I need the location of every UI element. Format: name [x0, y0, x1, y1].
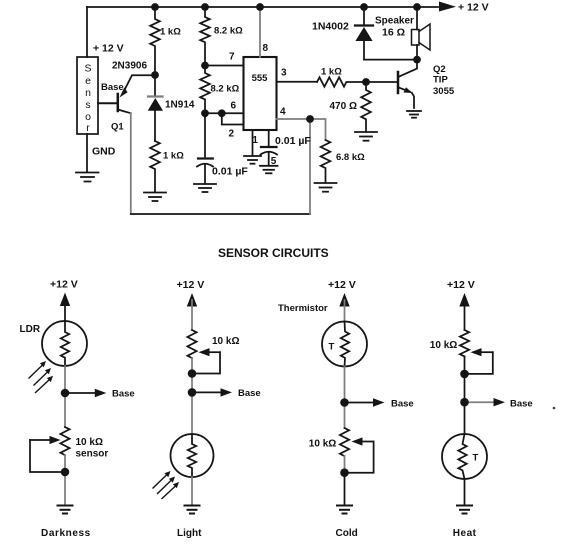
node pin6 junction [201, 109, 209, 117]
wire to ground (cold) [344, 473, 346, 505]
wire Q2 base [366, 81, 397, 83]
svg-text:+ 12 V: + 12 V [458, 2, 489, 14]
svg-text:T: T [473, 453, 479, 464]
node output/470 [362, 78, 370, 86]
node rail/8.2k [201, 3, 209, 11]
svg-text:8: 8 [263, 43, 269, 54]
svg-text:0.01 µF: 0.01 µF [275, 135, 311, 147]
node rail/1k [151, 3, 159, 11]
resistor R 1 kOhm (output) [317, 77, 366, 86]
sensor block [77, 57, 98, 134]
wire Q1 collector down (gray loop left) [130, 113, 132, 214]
svg-text:+12 V: +12 V [177, 279, 205, 291]
wire pin 3 output [277, 81, 318, 83]
wire +12V top rail [87, 6, 438, 8]
svg-text:Cold: Cold [336, 528, 358, 539]
wire base of Q1 [98, 102, 117, 104]
ground (cap branch) [194, 184, 216, 192]
svg-text:0.01 µF: 0.01 µF [212, 166, 248, 178]
svg-text:6: 6 [231, 101, 237, 112]
wire to speaker [416, 7, 418, 30]
wire node to pot (cold) [344, 403, 346, 429]
svg-text:1N914: 1N914 [165, 100, 195, 111]
svg-text:Darkness: Darkness [41, 528, 91, 539]
IC U1 555 [244, 57, 277, 130]
svg-text:7: 7 [229, 52, 235, 63]
svg-text:Base: Base [238, 388, 261, 399]
wire pin 2 [222, 113, 244, 124]
thermistor (heat) [442, 434, 487, 479]
svg-text:T: T [329, 342, 335, 353]
node base (cold) [340, 398, 349, 407]
ground (1k/1N914 branch) [144, 193, 166, 202]
svg-text:1 kΩ: 1 kΩ [163, 151, 184, 162]
ground (pin 5) [260, 166, 278, 174]
svg-text:1: 1 [252, 135, 258, 146]
diode 1N4002 [355, 7, 373, 60]
wire pot to node (light) [191, 358, 193, 373]
svg-text:470 Ω: 470 Ω [330, 101, 357, 112]
svg-text:S: S [84, 63, 91, 75]
ground (470) [355, 132, 377, 141]
node pin7 junction [201, 62, 209, 70]
svg-text:sensor: sensor [76, 449, 109, 460]
resistor R 1 kOhm (upper) [150, 7, 160, 75]
supply arrow (heat) [459, 293, 469, 330]
node rail/pin8 [256, 3, 264, 11]
svg-text:+12 V: +12 V [328, 279, 356, 291]
svg-text:555: 555 [252, 73, 269, 84]
speaker 16 Ohm [412, 24, 431, 50]
diode 1N914 [148, 75, 163, 141]
base arrow (heat) [465, 398, 506, 406]
wire pot to node (darkness) [64, 455, 66, 472]
ground (6.8k) [315, 183, 337, 192]
node pot bottom (heat) [460, 370, 469, 379]
light arrows (light) [153, 471, 179, 499]
svg-text:3055: 3055 [433, 86, 455, 97]
svg-text:r: r [86, 122, 90, 134]
potentiometer 10k sensor (darkness) [30, 427, 70, 472]
ground (darkness) [58, 506, 73, 514]
svg-text:1 kΩ: 1 kΩ [321, 67, 342, 78]
node rail/1N4002 [360, 3, 368, 11]
svg-text:+ 12 V: + 12 V [93, 43, 124, 55]
potentiometer 10k (cold) [340, 428, 374, 473]
wire loop right up to pin4 [309, 119, 311, 214]
svg-text:Base: Base [391, 399, 414, 410]
svg-text:6.8 kΩ: 6.8 kΩ [336, 152, 365, 163]
svg-text:Base: Base [112, 389, 135, 400]
wire pot to node (cold) [344, 456, 346, 473]
+12V rail arrowhead [439, 2, 456, 12]
svg-text:TIP: TIP [433, 75, 448, 86]
ground (cold) [337, 506, 352, 514]
svg-text:1 kΩ: 1 kΩ [160, 27, 181, 38]
wire node to thermistor (heat) [464, 402, 466, 434]
node pot bottom (light) [188, 369, 197, 378]
wire pin 4 [277, 118, 311, 120]
wire thermistor to ground (heat) [464, 479, 466, 505]
node speaker/diode/collector [413, 56, 421, 64]
svg-text:Base: Base [101, 82, 124, 93]
svg-text:10 kΩ: 10 kΩ [76, 437, 103, 448]
wire pin 1 [252, 130, 254, 156]
svg-text:GND: GND [92, 146, 116, 158]
wire sensor to ground [86, 134, 88, 172]
base arrow (cold) [345, 398, 385, 406]
wire between nodes (light) [191, 374, 193, 393]
supply arrow (cold) [339, 293, 349, 322]
svg-text:+12 V: +12 V [50, 279, 78, 291]
svg-text:n: n [85, 87, 91, 99]
ground (heat) [457, 506, 472, 514]
ground (Q2 emitter) [407, 111, 421, 118]
svg-text:3: 3 [281, 68, 287, 79]
svg-text:LDR: LDR [20, 324, 41, 335]
wire between nodes (heat) [464, 374, 466, 402]
resistor R 470 Ohm [361, 82, 371, 132]
base arrow (light) [192, 388, 232, 396]
wire thermistor to base node (cold) [344, 367, 346, 403]
resistor R 1 kOhm (lower) [150, 141, 160, 192]
svg-text:Thermistor: Thermistor [278, 303, 328, 314]
ground (pin 1) [244, 156, 261, 164]
wire pin 7 [205, 65, 244, 67]
potentiometer 10k (heat) [460, 330, 493, 374]
wire left drop to sensor [86, 7, 88, 57]
wire pin 8 [259, 7, 261, 57]
node base (light) [188, 388, 197, 397]
supply arrow (light) [187, 293, 197, 330]
thermistor (cold) [322, 322, 367, 367]
svg-text:10 kΩ: 10 kΩ [212, 336, 239, 347]
wire speaker to node [416, 45, 418, 60]
transistor Q2 TIP3055 [398, 60, 417, 108]
node pin2 junction [218, 109, 226, 117]
wire LDR to base node [64, 366, 66, 393]
wire node to LDR (light) [191, 392, 193, 434]
resistor R 6.8 kOhm [321, 140, 331, 183]
wire pot to node (heat) [464, 356, 466, 374]
node rail/speaker [413, 3, 421, 11]
capacitor C 0.01uF (pins 2/6) [197, 113, 213, 183]
wire node to pot [64, 393, 66, 427]
wire diode to speaker node [364, 59, 417, 61]
node base (darkness) [61, 389, 70, 398]
stray period mark [553, 407, 556, 410]
svg-text:Q1: Q1 [111, 122, 124, 133]
potentiometer 10k (light) [187, 330, 220, 374]
svg-text:Q2: Q2 [433, 64, 446, 75]
svg-text:s: s [85, 99, 90, 111]
light arrows (darkness) [29, 361, 53, 393]
svg-text:SENSOR CIRCUITS: SENSOR CIRCUITS [218, 246, 329, 260]
LDR photocell (darkness) [42, 321, 87, 366]
svg-text:+12 V: +12 V [447, 279, 475, 291]
node pot bottom (cold) [340, 468, 349, 477]
svg-text:2N3906: 2N3906 [112, 61, 147, 72]
resistor R 8.2 kOhm (upper) [200, 7, 210, 66]
svg-text:Base: Base [510, 399, 533, 410]
svg-text:8.2 kΩ: 8.2 kΩ [211, 84, 240, 95]
wire LDR to ground (light) [191, 477, 193, 505]
wire to ground (darkness) [64, 472, 66, 505]
wire to 6.8k [310, 119, 326, 140]
resistor R 8.2 kOhm (lower) [200, 66, 210, 114]
svg-text:Heat: Heat [453, 528, 477, 539]
svg-text:Light: Light [177, 528, 202, 539]
ground (light) [185, 506, 200, 514]
svg-text:e: e [85, 75, 91, 87]
node base (heat) [460, 398, 469, 407]
svg-text:2: 2 [229, 129, 235, 140]
supply arrow (darkness) [60, 293, 70, 322]
base arrow (darkness) [65, 389, 106, 397]
svg-text:4: 4 [280, 107, 286, 118]
svg-text:8.2 kΩ: 8.2 kΩ [214, 26, 243, 37]
wire pin 5 [268, 130, 270, 146]
svg-text:16 Ω: 16 Ω [382, 27, 405, 39]
svg-text:10 kΩ: 10 kΩ [430, 340, 457, 351]
svg-text:10 kΩ: 10 kΩ [309, 439, 336, 450]
ground (sensor) [76, 173, 99, 182]
wire loop bottom [131, 213, 310, 215]
svg-text:1N4002: 1N4002 [312, 21, 349, 33]
capacitor C 0.01uF (pin 5) [261, 147, 278, 166]
wire pin 6 [205, 112, 244, 114]
node pin4 junction [306, 115, 314, 123]
node pot bottom (darkness) [61, 468, 70, 477]
transistor Q1 2N3906 [118, 75, 155, 113]
LDR photocell (light) [171, 434, 214, 477]
svg-text:Speaker: Speaker [375, 16, 414, 27]
node Q1 emitter / diode [151, 71, 159, 79]
